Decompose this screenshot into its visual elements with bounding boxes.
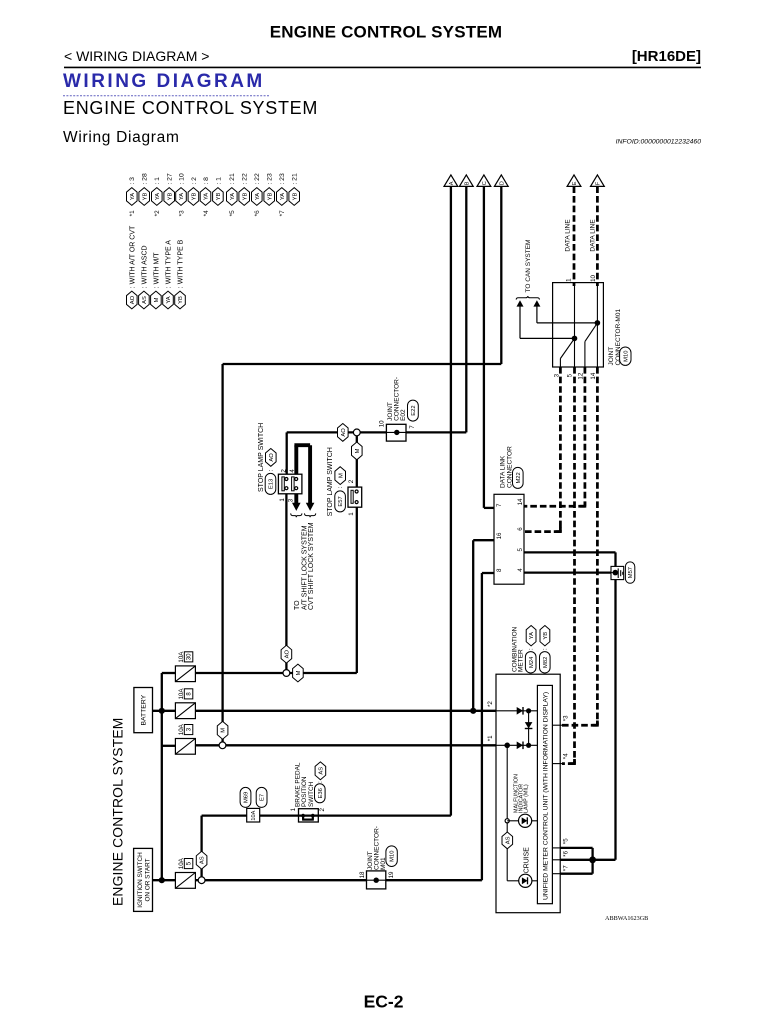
M10 junction node F — [595, 320, 601, 326]
svg-text:METER: METER — [518, 649, 525, 672]
svg-text:*6: *6 — [254, 210, 261, 216]
svg-text:E: E — [572, 181, 578, 185]
svg-text:E7: E7 — [260, 794, 266, 801]
option split node — [353, 429, 360, 436]
svg-text::: : — [542, 648, 549, 650]
svg-text:M10: M10 — [390, 851, 396, 862]
svg-text:: 3: : 3 — [129, 177, 136, 185]
AS variant badge — [196, 851, 207, 869]
MIL branch — [504, 743, 510, 749]
dashed: joint connector M10 pin 14 to meter *3 — [596, 367, 599, 725]
svg-text::: : — [528, 648, 535, 650]
svg-text:YA: YA — [280, 193, 286, 200]
legend pair *3 YA:10 YB:2 — [176, 188, 187, 206]
ignition junction dot — [159, 877, 165, 883]
wire: E36 pin 2 to arrow A riser — [318, 814, 451, 816]
stop lamp switch E57 box — [348, 487, 362, 507]
M10 junction node E — [572, 336, 578, 342]
meter right stubs — [552, 724, 562, 726]
wire: DLC pin 5 to ground rail — [524, 551, 616, 553]
svg-text:BATTERY: BATTERY — [141, 694, 148, 725]
dashed: joint connector M10 pin 5 to meter *4 — [573, 367, 576, 764]
svg-text:[HR16DE]: [HR16DE] — [632, 48, 701, 65]
svg-text:: 10: : 10 — [178, 173, 185, 185]
wire: DLC pin 7 link — [484, 507, 494, 509]
wire: E13 pin 1 drop — [285, 494, 287, 673]
svg-text:UNIFIED METER CONTROL UNIT (WI: UNIFIED METER CONTROL UNIT (WITH INFORMA… — [543, 692, 550, 900]
svg-text:ENGINE CONTROL SYSTEM: ENGINE CONTROL SYSTEM — [270, 23, 502, 42]
svg-text:CRUISE: CRUISE — [524, 847, 531, 873]
M variant badge on E57 branch — [352, 442, 363, 460]
svg-text:F: F — [595, 181, 601, 185]
svg-text:ENGINE CONTROL SYSTEM: ENGINE CONTROL SYSTEM — [63, 98, 318, 118]
fuse 10A #8 — [175, 703, 195, 719]
svg-text:TO CAN SYSTEM: TO CAN SYSTEM — [525, 240, 532, 293]
svg-text:6: 6 — [517, 527, 524, 531]
svg-text:4: 4 — [517, 568, 524, 572]
svg-text:*7: *7 — [279, 210, 286, 216]
M10 internal diagonal to pin 3 — [560, 338, 574, 358]
cross diode chain — [528, 711, 530, 746]
wire: D vertical run to fuse 3 node — [221, 364, 223, 745]
svg-text:TO: TO — [294, 600, 301, 610]
svg-text:: 1: : 1 — [215, 177, 222, 185]
wire: ignition switch row — [153, 879, 482, 881]
svg-text:YA: YA — [204, 193, 210, 200]
svg-text:AS: AS — [319, 767, 325, 775]
svg-text:10: 10 — [379, 420, 386, 427]
svg-text:M: M — [221, 728, 227, 733]
meter connector badges — [525, 652, 536, 673]
ground connector badge M57 — [625, 562, 634, 583]
svg-text:E13: E13 — [269, 479, 275, 489]
svg-text:YA: YA — [179, 193, 185, 200]
stop lamp switch E13 box — [278, 474, 302, 494]
svg-text:12: 12 — [577, 372, 584, 379]
legend pair *2 YA:1 YB:27 — [152, 188, 163, 206]
brake pedal position switch E36 box — [299, 809, 319, 822]
svg-text:Wiring Diagram: Wiring Diagram — [63, 129, 180, 146]
E36 AS badge — [315, 762, 326, 780]
wire: branch to fuse 3 — [162, 745, 176, 747]
E57 M badge — [335, 467, 346, 485]
svg-text:YA: YA — [255, 193, 261, 200]
svg-text:: WITH ASCD: : WITH ASCD — [141, 245, 148, 288]
svg-text:ENGINE CONTROL SYSTEM: ENGINE CONTROL SYSTEM — [111, 718, 126, 906]
wire: fuse 30 to battery riser — [162, 672, 176, 674]
meter internal *1 row — [496, 744, 537, 746]
legend AO = WITH A/T OR CVT — [127, 291, 138, 309]
M10 connector badge — [620, 347, 631, 365]
svg-text:WIRING DIAGRAM: WIRING DIAGRAM — [63, 71, 265, 92]
svg-text::: : — [317, 781, 324, 783]
svg-text::: : — [268, 469, 275, 471]
svg-text:16: 16 — [496, 532, 503, 539]
junction dots on meter rows — [470, 708, 476, 714]
braces under shift-lock arrows — [291, 513, 302, 517]
svg-text:IGNITION SWITCH: IGNITION SWITCH — [137, 852, 144, 908]
diode on *2 — [517, 707, 523, 715]
legend YB = WITH TYPE B — [175, 291, 186, 309]
E22 junction dot — [394, 430, 399, 435]
header rule — [64, 66, 701, 68]
TO CAN SYSTEM brace — [516, 296, 539, 299]
svg-text:M24: M24 — [529, 656, 535, 668]
svg-text:10A: 10A — [251, 810, 257, 820]
svg-text:: WITH M/T: : WITH M/T — [153, 252, 160, 288]
dashed: joint connector M10 pin 3 to DLC pin 6 — [559, 367, 562, 532]
wire: arrow A to brake pedal position switch pin 2 — [450, 186, 452, 815]
E57 contact circles — [355, 490, 358, 493]
M variant badge on arrow D drop — [217, 721, 228, 739]
fuse 10A #5 — [175, 873, 195, 889]
svg-text:: 8: : 8 — [203, 177, 210, 185]
wire: E57 pin 1 drop — [356, 507, 358, 673]
svg-text:*4: *4 — [563, 753, 570, 759]
svg-text:LAMP (MIL): LAMP (MIL) — [523, 784, 529, 813]
wire: stop lamp switch feed row — [287, 431, 467, 433]
svg-text:YB: YB — [292, 193, 298, 201]
svg-text:*3: *3 — [563, 715, 570, 721]
svg-text:: 23: : 23 — [267, 173, 274, 185]
svg-text:EC-2: EC-2 — [364, 992, 404, 1012]
svg-text:*7: *7 — [563, 865, 570, 871]
svg-text:2: 2 — [319, 808, 326, 812]
svg-text:YA: YA — [529, 632, 535, 639]
svg-text:: WITH A/T OR CVT: : WITH A/T OR CVT — [129, 225, 136, 288]
E36 connector badge — [315, 784, 326, 803]
joint connector M01 box (bottom) — [367, 871, 386, 889]
option split node fuse3 row — [219, 742, 226, 749]
svg-text:YB: YB — [178, 296, 184, 304]
E57 contact bar — [351, 490, 353, 503]
svg-text:YB: YB — [167, 193, 173, 201]
AO variant badge on stop lamp feed — [338, 424, 349, 442]
svg-text:18: 18 — [359, 871, 366, 878]
svg-text:AO: AO — [341, 428, 347, 437]
svg-text:SWITCH: SWITCH — [308, 781, 315, 807]
legend M = WITH M/T — [151, 291, 162, 309]
cruise indicator lamp — [519, 874, 532, 887]
thick drop to shift lock (right) — [308, 445, 312, 503]
thick drop from pin 3 — [294, 494, 298, 504]
svg-text:E22: E22 — [411, 405, 417, 415]
page connector arrow B — [459, 175, 473, 187]
svg-text:: 27: : 27 — [167, 173, 174, 185]
legend AS = WITH ASCD — [139, 291, 150, 309]
svg-text:14: 14 — [517, 498, 524, 505]
M69 connector badge — [240, 787, 251, 807]
battery junction dot — [159, 708, 165, 714]
combination meter box — [496, 674, 560, 913]
cruise lamp feed — [507, 880, 518, 882]
svg-text:M: M — [154, 297, 160, 302]
svg-text:10: 10 — [590, 274, 597, 281]
page connector arrow A — [444, 175, 458, 187]
svg-text:ON OR START: ON OR START — [145, 858, 152, 901]
svg-text:*1: *1 — [129, 210, 136, 216]
meter internal *2 row — [496, 710, 537, 712]
svg-text:M10: M10 — [623, 351, 629, 362]
page connector arrow D — [494, 175, 508, 187]
svg-text:*5: *5 — [229, 210, 236, 216]
svg-text:M22: M22 — [516, 472, 522, 483]
svg-text:3: 3 — [554, 373, 561, 377]
M10 internal pin 1 line — [574, 283, 576, 367]
wire: ASCD branch riser — [200, 816, 202, 881]
svg-text:*2: *2 — [154, 210, 161, 216]
svg-text:YA: YA — [130, 193, 136, 200]
svg-text:DATA LINE: DATA LINE — [565, 219, 572, 252]
TO CAN SYSTEM arrowheads — [517, 300, 524, 306]
svg-text::: : — [337, 486, 344, 488]
svg-text:B: B — [464, 181, 470, 185]
page connector arrow F — [591, 175, 605, 187]
wire: arrow C down to DLC pin 7 — [483, 186, 485, 508]
svg-text:AS: AS — [505, 836, 511, 844]
battery box — [134, 688, 153, 733]
AO variant badge on E13 drop — [281, 645, 292, 663]
svg-text:5: 5 — [517, 548, 524, 552]
dashed: joint connector M10 pin 12 to DLC pin 14 — [584, 367, 587, 506]
E57 connector badge — [335, 491, 346, 512]
M10 internal diagonal to pin 12 — [585, 323, 598, 342]
svg-text:: 2: : 2 — [191, 177, 198, 185]
E13 AO badge — [266, 449, 277, 467]
DLC connector badge — [513, 467, 524, 488]
svg-text:AO: AO — [285, 650, 291, 659]
malfunction indicator lamp MIL — [519, 814, 532, 827]
legend pair *7 YA:23 YB:21 — [277, 188, 288, 206]
svg-text:< WIRING DIAGRAM >: < WIRING DIAGRAM > — [64, 48, 209, 64]
svg-text:*4: *4 — [203, 210, 210, 216]
E7 connector badge — [256, 787, 267, 807]
svg-text:*3: *3 — [178, 210, 185, 216]
svg-text:D: D — [499, 181, 505, 185]
svg-text:1: 1 — [279, 498, 286, 502]
svg-text:M69: M69 — [244, 792, 250, 803]
svg-text:1: 1 — [290, 807, 297, 811]
svg-text:1: 1 — [566, 278, 573, 282]
svg-text:7: 7 — [409, 425, 416, 429]
svg-text:2: 2 — [281, 469, 288, 473]
svg-text:DATA LINE: DATA LINE — [589, 219, 596, 252]
svg-text:M82: M82 — [543, 657, 549, 668]
legend pair *1 YA:3 YB:28 — [127, 188, 138, 206]
M variant badge on fuse30 row — [293, 664, 304, 682]
svg-text:YA: YA — [230, 193, 236, 200]
svg-text:STOP LAMP SWITCH: STOP LAMP SWITCH — [327, 447, 334, 516]
wire: ignition riser to DLC pin 8 — [481, 573, 483, 880]
svg-text:M57: M57 — [628, 567, 634, 578]
svg-text:2: 2 — [348, 479, 355, 483]
legend pair *6 YA:22 YB:23 — [252, 188, 263, 206]
svg-text:A: A — [449, 181, 455, 185]
option split node on fuse30 row — [283, 670, 290, 677]
AS badge inside meter — [502, 832, 513, 849]
svg-text:YB: YB — [267, 193, 273, 201]
TO CAN SYSTEM stub wires — [519, 307, 521, 339]
wire: D horizontal run — [223, 363, 502, 365]
diode on *1 — [517, 742, 523, 750]
svg-text:1: 1 — [348, 512, 355, 516]
wire: meter *5/*6/*7 tie — [560, 847, 592, 849]
ignition switch box — [134, 848, 153, 911]
wire: fuse 30 row — [195, 672, 356, 674]
svg-text:YB: YB — [142, 193, 148, 201]
data line E (CAN) — [573, 186, 576, 286]
svg-text:: 23: : 23 — [279, 173, 286, 185]
wire: arrow B down to stop lamp row — [465, 186, 467, 432]
svg-text:: 28: : 28 — [142, 173, 149, 185]
M01 junction dot — [374, 878, 379, 883]
svg-text:M: M — [338, 473, 344, 478]
svg-text:E36: E36 — [318, 788, 324, 798]
wire: DLC pin 4 to ground node — [524, 571, 616, 573]
svg-text:AS: AS — [142, 296, 148, 304]
wire: fuse 3 row to combination meter *1 — [195, 744, 496, 746]
svg-text:AO: AO — [130, 295, 136, 304]
E13 contact circles — [285, 478, 288, 481]
wire: battery to fuse 8 — [153, 710, 176, 712]
ASCD option split node — [198, 877, 205, 884]
data line F (CAN) — [596, 186, 599, 286]
fuse 10A #3 — [175, 739, 195, 755]
svg-text:: 1: : 1 — [154, 177, 161, 185]
svg-text:*5: *5 — [563, 838, 570, 844]
dashed corner elbows — [556, 527, 561, 532]
fuse 10A #30 — [175, 666, 195, 682]
svg-text:7: 7 — [496, 503, 503, 507]
svg-text:*2: *2 — [487, 701, 494, 707]
svg-text:INFOID:0000000012232460: INFOID:0000000012232460 — [616, 139, 702, 146]
legend YA = WITH TYPE A — [163, 291, 174, 309]
wire: DLC pin 16 branch — [473, 539, 494, 541]
svg-text:*6: *6 — [563, 850, 570, 856]
svg-text:19: 19 — [388, 871, 395, 878]
svg-text:: 22: : 22 — [242, 173, 249, 185]
svg-text:YA: YA — [166, 296, 172, 303]
svg-text:C: C — [482, 181, 488, 185]
svg-text:M: M — [296, 670, 302, 675]
svg-text:CVT SHIFT LOCK SYSTEM: CVT SHIFT LOCK SYSTEM — [308, 522, 315, 610]
svg-text:YA: YA — [155, 193, 161, 200]
page connector arrow C — [477, 175, 491, 187]
svg-text:30: 30 — [186, 653, 192, 660]
E36 contact symbol — [301, 814, 305, 818]
svg-text:3: 3 — [288, 498, 295, 502]
wire: arrow D down — [500, 186, 502, 364]
legend pair *5 YA:21 YB:22 — [227, 188, 238, 206]
joint connector U1 M10 box — [553, 283, 604, 367]
svg-text:5: 5 — [567, 373, 574, 377]
wire: E13 pin 2 riser — [286, 432, 288, 474]
wire: E57 branch riser — [356, 432, 358, 487]
E13 connector badge — [265, 473, 276, 494]
svg-text:AO: AO — [269, 453, 275, 462]
svg-text:YB: YB — [242, 193, 248, 201]
page connector arrow E — [567, 175, 581, 187]
svg-text:YB: YB — [216, 193, 222, 201]
svg-text:AS: AS — [200, 856, 206, 864]
M01 connector badge — [386, 846, 397, 867]
in-line 10A fuse box — [247, 808, 260, 822]
legend pair *4 YA:8 YB:1 — [200, 188, 211, 206]
svg-text:STOP LAMP SWITCH: STOP LAMP SWITCH — [258, 423, 265, 492]
wire: fuse 8 row to combination meter *2 — [195, 710, 496, 712]
data link connector M22 box — [494, 494, 524, 584]
svg-text:E02: E02 — [400, 409, 407, 421]
wire: battery down to ignition switch — [161, 711, 163, 880]
svg-text:*1: *1 — [487, 735, 494, 741]
ground symbol box — [611, 566, 624, 579]
svg-text:14: 14 — [590, 372, 597, 379]
E13 contact bars — [282, 477, 284, 491]
svg-text:8: 8 — [496, 568, 503, 572]
svg-text:: WITH TYPE B: : WITH TYPE B — [178, 239, 185, 288]
svg-text:M: M — [355, 448, 361, 453]
svg-text:ABBWA1623GB: ABBWA1623GB — [605, 915, 648, 922]
svg-text:: 21: : 21 — [292, 173, 299, 185]
E22 connector badge — [408, 400, 419, 421]
ground junction dot — [613, 570, 619, 576]
unified meter control unit box — [537, 685, 552, 903]
M10 internal pin 10 line — [596, 283, 598, 367]
svg-text:YB: YB — [543, 632, 549, 640]
svg-text:: 22: : 22 — [254, 173, 261, 185]
thick link pin4 — [294, 445, 298, 474]
svg-text:: 21: : 21 — [229, 173, 236, 185]
joint connector E22 box — [386, 424, 406, 441]
svg-text:YB: YB — [192, 193, 198, 201]
svg-text:: WITH TYPE A: : WITH TYPE A — [166, 240, 173, 288]
svg-text:E57: E57 — [338, 496, 344, 506]
wire: ASCD branch row to E36 — [202, 814, 299, 816]
